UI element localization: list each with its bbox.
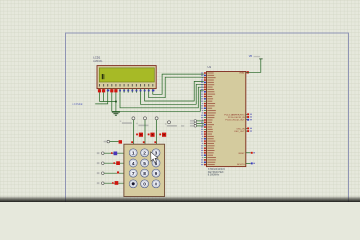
U1 right pin PC15: [246, 119, 249, 121]
logic probe LCD pin RS: [110, 89, 113, 92]
U1 VBAT pin probe: [247, 71, 249, 73]
wire row 3 to keypad: [104, 172, 124, 174]
U1 right pin OSC_OUT: [246, 130, 249, 132]
logic probe row 3: [117, 171, 119, 173]
svg-text:PC14-OSC32_IN: PC14-OSC32_IN: [228, 117, 245, 119]
U1 left pin numbers: [201, 72, 203, 165]
keypad button 7: [129, 169, 137, 177]
pin mark column 1: [131, 141, 133, 143]
LCD LM016L body: [97, 66, 156, 89]
net label row 2: [97, 162, 100, 164]
keypad button 0: [141, 180, 149, 188]
wire row 2 to keypad: [104, 162, 124, 164]
LCD pin stubs 1-14: [100, 89, 153, 93]
logic probe LCD VEE: [108, 90, 110, 92]
logic probe row 4: [115, 181, 119, 185]
terminal row 4: [102, 182, 105, 185]
wire VSS-VDD-RW bus: [100, 101, 116, 103]
terminal U1 aux 1: [194, 120, 197, 123]
wire RS LCD to U1: [112, 90, 204, 111]
svg-text:9: 9: [155, 171, 158, 177]
schematic sheet border: [66, 33, 349, 209]
logic probe column 1: [139, 133, 143, 137]
wire aux 2 to U1: [197, 122, 204, 124]
svg-text:VBAT: VBAT: [239, 72, 245, 75]
terminal row 3: [102, 172, 105, 175]
svg-text:LM016L: LM016L: [93, 59, 103, 63]
logic probe column 3: [162, 133, 166, 137]
wire LCD RW down: [115, 93, 117, 102]
keypad button 9: [152, 169, 160, 177]
svg-text:0: 0: [143, 182, 146, 188]
svg-text:1: 1: [132, 151, 135, 157]
U1 left pin names: [207, 73, 216, 166]
logic probe row 1: [114, 152, 118, 156]
terminal U1 aux 2: [194, 122, 197, 125]
wire row 1 to keypad: [104, 152, 124, 154]
terminal column 2: [144, 117, 147, 120]
net label row 4: [97, 182, 100, 184]
pin mark row 3: [125, 172, 127, 174]
pin mark column 3: [154, 141, 156, 143]
net label column 2: [138, 125, 148, 127]
terminal column 3: [155, 117, 158, 120]
probe tick row 1: [111, 152, 113, 154]
svg-text:VB: VB: [249, 55, 253, 58]
wire column 1 to keypad: [132, 120, 134, 145]
keypad button 6: [152, 159, 160, 167]
keypad button star: [129, 180, 137, 188]
logic probe LCD pin RW: [114, 89, 117, 92]
wire corner terminal: [110, 141, 119, 143]
logic probe LCD pin VDD: [102, 89, 105, 92]
ground symbol: [112, 112, 120, 115]
pin mark column 2: [143, 141, 145, 143]
keypad button 4: [129, 159, 137, 167]
U1 left pin logic probes: [204, 72, 206, 165]
LCD pin name labels row: [99, 84, 153, 87]
U1 right pin PC13: [246, 113, 249, 115]
net label row 1: [97, 152, 100, 154]
terminal row 2: [102, 162, 105, 165]
logic probe column 2: [150, 133, 154, 137]
power terminal 3.3V: [259, 58, 262, 60]
svg-text:PC13-TAMPER-RTC: PC13-TAMPER-RTC: [224, 113, 245, 116]
wire aux 1 to U1: [197, 120, 204, 122]
power net label: [254, 56, 261, 57]
keypad button 5: [141, 159, 149, 167]
probe tick column 3: [159, 134, 161, 136]
probe tick row 4: [112, 182, 114, 184]
terminal U1 aux 3: [194, 125, 197, 128]
svg-text:2: 2: [143, 151, 146, 157]
microcontroller U1 body: [207, 72, 246, 167]
U1 right pin BOOT0: [246, 162, 251, 164]
net label aux 3: [190, 125, 195, 127]
mouse cursor: [151, 152, 158, 163]
svg-text:8.000MHz: 8.000MHz: [208, 174, 220, 177]
wire column 2 to keypad: [144, 120, 146, 145]
wire aux 3 to U1: [197, 125, 204, 127]
keypad button 8: [141, 169, 149, 177]
logic probe row 2: [116, 161, 120, 165]
wire row 4 to keypad: [104, 182, 124, 184]
logic probe mark LCD D7: [153, 90, 155, 92]
wire E LCD to U1: [120, 87, 204, 108]
svg-text:5: 5: [143, 161, 146, 167]
pin mark row 4: [125, 182, 127, 184]
probe tick row 2: [113, 162, 115, 164]
junction VSS net: [115, 101, 117, 103]
svg-text:OSC_OUT: OSC_OUT: [234, 131, 245, 133]
terminal corner: [107, 140, 110, 143]
net label row 3: [97, 172, 100, 174]
svg-text:LCDVEE: LCDVEE: [73, 103, 83, 106]
svg-text:8: 8: [143, 171, 146, 177]
svg-text:BOOT0: BOOT0: [237, 164, 245, 166]
probe tick column 1: [136, 134, 138, 136]
svg-text:U1: U1: [208, 65, 212, 69]
U1 right pin NRST: [246, 152, 251, 154]
terminal column 1: [132, 117, 135, 120]
wire D4 LCD to U1: [141, 84, 204, 104]
LCD pin numbers: [107, 90, 154, 92]
svg-text:#: #: [155, 182, 158, 188]
svg-text:OSC_IN: OSC_IN: [236, 128, 245, 130]
wire LCD VDD down: [103, 93, 105, 102]
logic probe keypad corner: [119, 140, 122, 143]
wire column 3 to keypad: [156, 120, 158, 145]
probe tick column 2: [148, 134, 150, 136]
wire VBAT to power terminal: [246, 59, 261, 72]
logic probe LCD pin VSS: [98, 89, 101, 92]
net label spare: [167, 125, 177, 127]
svg-text:LCD1: LCD1: [93, 55, 101, 59]
net label aux 1: [190, 120, 195, 122]
wire D6 LCD to U1: [149, 77, 204, 98]
wire D5 LCD to U1: [145, 81, 204, 101]
net label aux 2: [190, 123, 195, 125]
keypad button 3: [152, 149, 160, 157]
pin mark row 2: [125, 162, 127, 164]
LCD screen: [99, 68, 154, 82]
wire LCD VSS down: [99, 93, 101, 102]
wire VEE to label: [95, 93, 108, 104]
net label aux left: [181, 125, 184, 127]
U1 right pin OSC_IN: [246, 127, 249, 129]
keypad button 1: [129, 149, 137, 157]
wire to ground: [115, 102, 117, 112]
U1 right pin PC14: [246, 116, 249, 118]
pin mark row 1: [125, 152, 127, 154]
net label corner: [104, 141, 107, 143]
svg-text:4: 4: [132, 161, 135, 167]
wire D7 LCD to U1: [153, 74, 204, 94]
net label column 1: [122, 122, 132, 124]
terminal row 1: [102, 152, 105, 155]
terminal spare: [168, 121, 171, 124]
U1 left pin stubs: [204, 73, 207, 165]
keypad 3x4 body: [124, 144, 165, 196]
svg-text:NRST: NRST: [239, 153, 246, 155]
LCD displayed character: [102, 74, 104, 79]
keypad button hash: [152, 180, 160, 188]
keypad button 2: [141, 149, 149, 157]
svg-text:7: 7: [132, 171, 135, 177]
svg-text:PC15-OSC32_OUT: PC15-OSC32_OUT: [225, 120, 245, 122]
video letterbox bottom: [0, 196, 360, 202]
